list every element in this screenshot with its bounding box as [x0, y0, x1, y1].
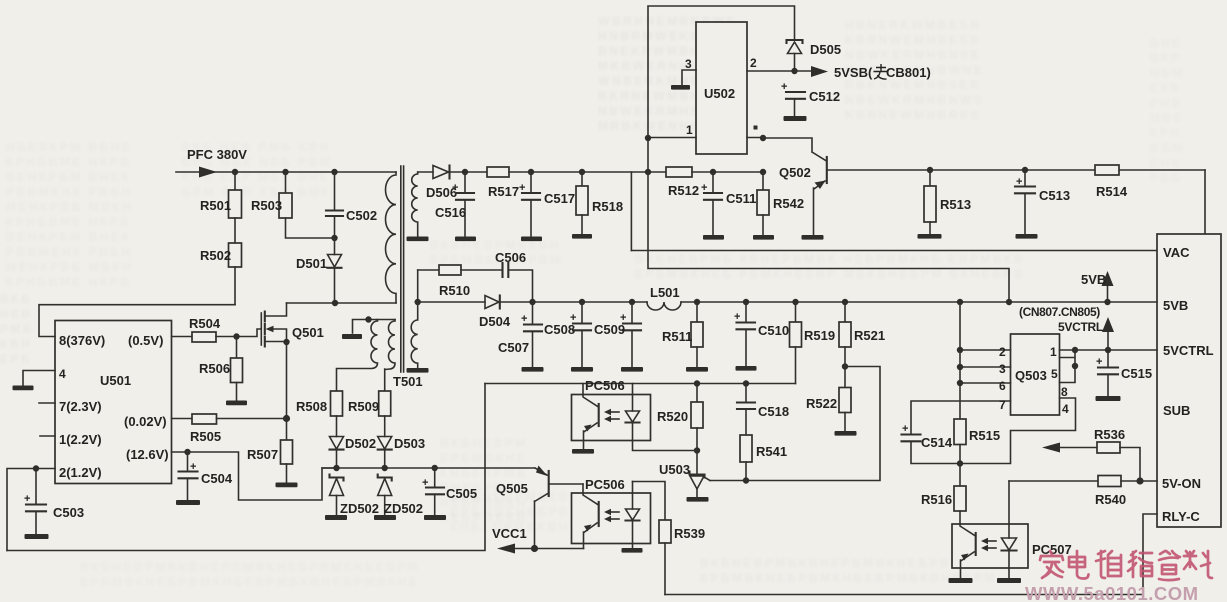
- capacitor C505: [434, 468, 436, 487]
- svg-text:R508: R508: [296, 399, 327, 414]
- svg-text:L501: L501: [650, 285, 680, 300]
- ground C505: [424, 515, 446, 520]
- zener ZD502 first: [330, 475, 344, 481]
- Q503 pin 8: [960, 398, 1076, 464]
- wire R521 node to divider loop: [710, 367, 880, 481]
- ground C504: [176, 500, 200, 505]
- svg-text:C509: C509: [594, 322, 625, 337]
- node D503/ZD502 junction: [382, 465, 388, 471]
- capacitor C508: [581, 302, 583, 323]
- node C511 junction: [710, 169, 716, 175]
- svg-text:4: 4: [1062, 402, 1069, 416]
- optocoupler PC506 upper: [572, 395, 651, 441]
- resistor R506: [236, 337, 238, 359]
- svg-text:C510: C510: [758, 323, 789, 338]
- node U502 pin1 junction: [645, 135, 651, 141]
- svg-text:R522: R522: [806, 396, 837, 411]
- transformer T501 secondary winding 1: [412, 172, 418, 237]
- ground R507: [276, 483, 298, 488]
- svg-text:5V-ON: 5V-ON: [1162, 476, 1201, 491]
- transistor Q502: [826, 157, 828, 183]
- resistor R540: [1098, 476, 1121, 487]
- wire U502 top loop: [648, 6, 795, 138]
- resistor R510: [418, 269, 439, 271]
- arrow PC507 light 2: [985, 547, 996, 549]
- svg-text:(0.5V): (0.5V): [128, 333, 163, 348]
- svg-text:Q502: Q502: [779, 165, 811, 180]
- capacitor C502: [334, 172, 336, 210]
- resistor R542: [762, 172, 764, 190]
- svg-text:+: +: [902, 423, 908, 435]
- ground R518: [572, 234, 592, 239]
- svg-text:C511: C511: [726, 191, 756, 206]
- resistor R519: [795, 302, 797, 322]
- node rail/T501 secondary 2: [415, 299, 421, 305]
- arrow Q505 emitter: [536, 466, 548, 477]
- diode PC507 LED: [1008, 524, 1010, 538]
- svg-text:(CN807.CN805): (CN807.CN805): [1019, 305, 1100, 319]
- arrow 5VSB: [811, 66, 828, 77]
- node C502/D501 junction: [331, 235, 337, 241]
- transformer T501 core: [401, 166, 404, 372]
- U502 pin 3: [682, 70, 696, 85]
- ground C517: [521, 237, 542, 242]
- node R511 junction: [694, 299, 700, 305]
- svg-text:D501: D501: [296, 256, 327, 271]
- svg-text:8: 8: [1061, 385, 1068, 399]
- svg-text:ZD502: ZD502: [340, 501, 379, 516]
- ground Q502 emitter: [802, 235, 824, 240]
- transistor PC506 lower phototransistor: [598, 502, 600, 526]
- wire R536 line: [1056, 447, 1097, 449]
- capacitor C517: [530, 172, 532, 193]
- wire PFC rail: [176, 171, 396, 173]
- svg-text:R519: R519: [804, 328, 835, 343]
- svg-text:PC506: PC506: [585, 477, 625, 492]
- connector CN (VAC..RLY-C): [1157, 234, 1221, 527]
- resistor R508: [331, 391, 343, 416]
- svg-text:VAC: VAC: [1163, 245, 1190, 260]
- wire R540 to connector 5V-ON: [1121, 480, 1157, 482]
- node C507 junction: [529, 299, 535, 305]
- ground C507: [522, 367, 544, 372]
- wire Q501 source to R507: [286, 342, 288, 440]
- ground C511: [703, 235, 724, 240]
- svg-text:R503: R503: [251, 198, 282, 213]
- U501 pin 1 stub: [40, 435, 55, 437]
- optocoupler PC507: [952, 524, 1028, 568]
- wire U503 ref: [704, 477, 710, 481]
- svg-text:+: +: [734, 311, 740, 323]
- svg-text:C516: C516: [435, 205, 466, 220]
- svg-text:C504: C504: [201, 471, 233, 486]
- ic Q503: [1011, 334, 1060, 415]
- svg-text:D505: D505: [810, 42, 841, 57]
- svg-text:+: +: [1096, 356, 1102, 368]
- ground PC506 lower LED: [622, 548, 643, 553]
- node Q501 source junction: [283, 339, 289, 345]
- node 5V-ON junction: [1136, 477, 1143, 484]
- svg-text:C505: C505: [446, 486, 477, 501]
- arrow VCC1: [497, 544, 515, 554]
- ground R513: [918, 234, 942, 239]
- svg-text:C515: C515: [1121, 366, 1152, 381]
- ground aux winding: [342, 334, 362, 339]
- svg-text:5VCTRL: 5VCTRL: [1058, 320, 1103, 334]
- wire Q501 drain line: [287, 302, 397, 304]
- resistor R518: [581, 172, 583, 186]
- capacitor C510: [745, 302, 747, 322]
- diode D501: [334, 238, 336, 255]
- wire PC506 upper emitter: [584, 423, 598, 449]
- node 5VB rail x1107.5: [1104, 299, 1110, 305]
- wire R504 to Q501 gate: [216, 329, 261, 337]
- arrow PFC input: [199, 167, 217, 178]
- ground C510: [736, 366, 757, 371]
- faint page bleed-through texture blocks (decorative): [598, 14, 737, 134]
- resistor R501: [234, 172, 236, 190]
- resistor R509: [379, 391, 391, 416]
- svg-text:5VB: 5VB: [1163, 298, 1188, 313]
- svg-text:R517: R517: [488, 184, 519, 199]
- diode PC506 lower LED: [632, 482, 634, 510]
- ground ZD502 second: [374, 515, 396, 520]
- svg-text:VCC1: VCC1: [492, 526, 527, 541]
- wire Q501 source: [265, 341, 287, 343]
- svg-text:6: 6: [999, 379, 1006, 393]
- svg-text:Q501: Q501: [292, 325, 324, 340]
- wire PC506 lower emitter: [584, 523, 598, 549]
- node C518 top junction: [743, 380, 749, 386]
- svg-text:1: 1: [1050, 345, 1057, 359]
- shunt-reg U503: [696, 451, 698, 475]
- node C508 junction: [579, 299, 585, 305]
- svg-text:R509: R509: [348, 399, 379, 414]
- resistor R514: [1095, 165, 1119, 175]
- svg-text:U501: U501: [100, 373, 131, 388]
- svg-text:2(1.2V): 2(1.2V): [59, 465, 102, 480]
- svg-text:3: 3: [685, 57, 692, 71]
- wire Q502 emitter: [814, 181, 826, 235]
- ground C509: [621, 367, 643, 372]
- wire PC507 collector pin: [960, 524, 976, 536]
- svg-text:C518: C518: [758, 404, 789, 419]
- wire Q502 collector line to connector: [827, 169, 1205, 171]
- arrow 5VCTRL: [1107, 331, 1109, 350]
- resistor R503: [285, 172, 287, 193]
- wire secondary rail to D506: [418, 171, 433, 173]
- node 5VB rail x1009: [1006, 299, 1012, 305]
- node C510 junction: [743, 299, 749, 305]
- svg-text:R506: R506: [199, 361, 230, 376]
- svg-text:U502: U502: [704, 86, 735, 101]
- node junction R503: [282, 169, 288, 175]
- svg-text:CB801): CB801): [886, 65, 931, 80]
- svg-text:D502: D502: [345, 436, 376, 451]
- svg-text:R514: R514: [1096, 184, 1128, 199]
- transformer T501 secondary winding 2: [411, 270, 417, 368]
- svg-text:C514: C514: [921, 435, 953, 450]
- Q503 pin 3: [960, 366, 1011, 368]
- arrow R536: [1042, 443, 1060, 453]
- U501 pin 7 stub: [39, 402, 55, 404]
- node R518 junction: [579, 169, 585, 175]
- resistor R541: [740, 435, 752, 462]
- wire 5VSB output: [795, 70, 813, 72]
- ground C513: [1016, 234, 1038, 239]
- Q503 pin 1: [1060, 349, 1076, 351]
- wire R503 bottom to C502 node: [286, 218, 335, 238]
- svg-text:Q505: Q505: [496, 481, 528, 496]
- watermark 家电维修资料网: [1040, 551, 1212, 580]
- arrow PC506 lower light 2: [608, 518, 619, 520]
- svg-text:C503: C503: [53, 505, 84, 520]
- arrow PC506 upper light 2: [608, 418, 619, 420]
- resistor R502: [229, 243, 242, 267]
- U502 pin 4 mark: [747, 137, 763, 139]
- mosfet Q501 channel: [264, 312, 266, 347]
- node C509 junction: [629, 299, 635, 305]
- wire corner down to VAC line: [630, 172, 632, 251]
- svg-text:R521: R521: [854, 328, 885, 343]
- wire R514 to connector VAC: [1204, 170, 1206, 234]
- node base line junction: [760, 135, 766, 141]
- U502 pin 2: [747, 70, 795, 72]
- op-amp U501: [55, 321, 172, 484]
- diode D506: [433, 166, 449, 179]
- resistor R512: [666, 167, 692, 177]
- capacitor C515: [1107, 350, 1109, 367]
- wire Q505 collector: [535, 493, 549, 549]
- svg-text:R512: R512: [668, 183, 699, 198]
- ground U503: [687, 497, 709, 502]
- wire pin1 to 5VCTRL pin: [1075, 349, 1157, 351]
- transistor PC506 upper phototransistor: [598, 404, 600, 426]
- arrow PC507 emitter: [961, 554, 969, 561]
- resistor R521: [844, 302, 846, 322]
- ground C516: [455, 237, 476, 242]
- node C505 junction: [432, 465, 438, 471]
- Q503 pin 7: [911, 401, 1011, 434]
- Q503 pin 5 box: [1060, 350, 1076, 383]
- node C516 junction: [462, 169, 468, 175]
- resistor R516: [954, 486, 966, 511]
- diode D504: [485, 296, 499, 309]
- resistor R515: [954, 419, 966, 445]
- ground C508: [571, 367, 593, 372]
- wire VAC line: [631, 250, 1157, 252]
- node R542 junction: [760, 169, 766, 175]
- arrow PC506 upper light 1: [608, 411, 619, 413]
- svg-text:+: +: [24, 493, 30, 505]
- capacitor C509: [631, 302, 633, 323]
- svg-text:R505: R505: [190, 429, 221, 444]
- wire Q505 emitter line: [322, 468, 547, 475]
- diode D503: [384, 416, 386, 437]
- node R520 top junction: [694, 380, 700, 386]
- wire rail R518 to R512: [582, 171, 666, 173]
- inductor L501: [647, 302, 681, 310]
- ground PC507 emitter: [949, 578, 973, 583]
- wire R540 line: [1009, 480, 1098, 482]
- svg-text:+: +: [521, 313, 527, 325]
- svg-text:R511: R511: [662, 329, 692, 344]
- svg-text:5VB: 5VB: [1081, 272, 1106, 287]
- svg-text:R536: R536: [1094, 427, 1125, 442]
- capacitor C516: [464, 172, 466, 193]
- wire PC506 lower LED anode to R539: [633, 482, 666, 521]
- transistor Q505: [548, 471, 550, 496]
- svg-text:C512: C512: [809, 89, 840, 104]
- ground R511: [686, 367, 708, 372]
- wire R536 to 5V-ON node: [1120, 448, 1140, 482]
- wire R501-R502: [234, 218, 236, 243]
- node R515 bottom junction: [957, 460, 963, 466]
- node R507 junction: [283, 415, 290, 422]
- ground PC507 LED: [997, 578, 1021, 583]
- transistor PC507 phototransistor: [975, 533, 977, 555]
- svg-text:C506: C506: [495, 250, 526, 265]
- wire R505 to Q501 source: [217, 418, 287, 420]
- svg-text:R542: R542: [773, 196, 804, 211]
- ground R522: [835, 431, 857, 436]
- svg-text:4: 4: [59, 367, 66, 381]
- transformer T501 aux winding B: [385, 320, 395, 392]
- svg-text:ZD502: ZD502: [384, 501, 423, 516]
- ground U501 pin4: [13, 386, 34, 391]
- wire PC507 emitter: [961, 552, 975, 578]
- transformer T501 aux winding A: [337, 320, 378, 392]
- node junction C502: [331, 169, 337, 175]
- svg-text:R539: R539: [674, 526, 705, 541]
- Q503 pin 6: [960, 382, 1011, 384]
- wire bottom-left return: [7, 384, 485, 551]
- wire feedback line y383: [485, 383, 796, 385]
- ground U502 pin3: [671, 85, 690, 90]
- ground C515: [1096, 396, 1121, 401]
- capacitor C503: [35, 469, 37, 505]
- U501 pin 2 wire: [7, 469, 55, 551]
- svg-text:1(2.2V): 1(2.2V): [59, 432, 102, 447]
- wire R517 to C517: [509, 171, 582, 173]
- diode D502: [336, 416, 338, 437]
- svg-text:7: 7: [999, 398, 1006, 412]
- svg-text:R516: R516: [921, 492, 952, 507]
- svg-text:Q503: Q503: [1015, 368, 1047, 383]
- Q503 pin 2: [960, 349, 1011, 351]
- node R541 bottom junction: [743, 477, 749, 483]
- resistor R539: [659, 520, 671, 543]
- node C517 junction: [528, 169, 534, 175]
- U502 pin 1: [648, 137, 696, 139]
- zener ZD502 second: [378, 475, 392, 481]
- svg-text:2: 2: [999, 345, 1006, 359]
- svg-text:R504: R504: [189, 316, 221, 331]
- diode D505: [787, 40, 803, 43]
- arrow PC506 upper emitter: [584, 425, 592, 432]
- mosfet Q501 gate bar: [260, 313, 262, 345]
- node R519 junction: [792, 299, 798, 305]
- node R521 junction: [842, 299, 848, 305]
- svg-text:3: 3: [999, 362, 1006, 376]
- ground PC506 upper emitter: [572, 449, 594, 454]
- node rail x648: [645, 169, 651, 175]
- ground R506: [226, 401, 247, 406]
- svg-text:R541: R541: [756, 444, 787, 459]
- capacitor C513: [1024, 170, 1026, 186]
- capacitor C511: [712, 172, 714, 193]
- optocoupler PC506 lower: [572, 493, 651, 544]
- node R513 junction: [927, 167, 933, 173]
- arrow Q501 body: [266, 326, 274, 333]
- arrow 5VB: [1107, 285, 1109, 302]
- wire R512 to C511: [692, 171, 763, 173]
- resistor R513: [929, 170, 931, 186]
- capacitor C504: [187, 452, 189, 471]
- node aux winding junction: [365, 316, 371, 322]
- resistor R505: [192, 414, 217, 424]
- wire PC506 lower collector pin: [583, 484, 599, 505]
- node C504 junction: [184, 449, 190, 455]
- svg-text:R540: R540: [1095, 492, 1126, 507]
- svg-text:PFC 380V: PFC 380V: [187, 147, 247, 162]
- svg-text:C513: C513: [1039, 188, 1070, 203]
- node R520/U503 junction: [694, 447, 700, 453]
- resistor R536: [1097, 442, 1120, 453]
- svg-text:R510: R510: [439, 283, 470, 298]
- node D502/ZD502 junction: [333, 465, 339, 471]
- node R522 junction: [842, 363, 848, 369]
- diode PC506 upper LED: [632, 384, 634, 412]
- ground C503: [25, 534, 49, 539]
- wire vertical x648 U502 pin1 to 5VB link: [648, 138, 1009, 302]
- op-amp U502: [696, 22, 747, 154]
- svg-text:5VSB(: 5VSB(: [834, 65, 873, 80]
- resistor R511: [696, 302, 698, 322]
- svg-text:2: 2: [750, 56, 757, 70]
- capacitor C507: [532, 302, 534, 324]
- wire VCC1 line: [510, 548, 584, 550]
- ground R542: [753, 235, 774, 240]
- capacitor C518: [745, 384, 747, 403]
- svg-text:RLY-C: RLY-C: [1162, 509, 1200, 524]
- node pin1 junction: [1072, 347, 1078, 353]
- node 5VSB junction: [791, 68, 797, 74]
- svg-text:PC506: PC506: [585, 378, 625, 393]
- U501 pin 8 wire: [39, 305, 235, 337]
- svg-text:SUB: SUB: [1163, 403, 1190, 418]
- svg-text:R515: R515: [969, 428, 1000, 443]
- svg-text:T501: T501: [393, 374, 423, 389]
- node 5VB rail x960: [957, 299, 963, 305]
- svg-text:U503: U503: [659, 462, 690, 477]
- svg-text:R518: R518: [592, 199, 623, 214]
- U501 pin 4: [23, 371, 55, 386]
- resistor R520: [696, 384, 698, 403]
- arrow PC507 light 1: [985, 540, 996, 542]
- svg-text:C508: C508: [544, 322, 575, 337]
- svg-text:(12.6V): (12.6V): [126, 447, 169, 462]
- arrow Q502 emitter: [815, 181, 826, 190]
- node C515 junction: [1105, 347, 1111, 353]
- svg-text:5: 5: [1051, 367, 1058, 381]
- ground secondary winding 2: [407, 368, 429, 373]
- resistor R522: [844, 367, 846, 388]
- svg-text:7(2.3V): 7(2.3V): [59, 399, 102, 414]
- capacitor C506: [503, 263, 509, 277]
- svg-text:R513: R513: [940, 197, 971, 212]
- svg-text:R507: R507: [247, 447, 278, 462]
